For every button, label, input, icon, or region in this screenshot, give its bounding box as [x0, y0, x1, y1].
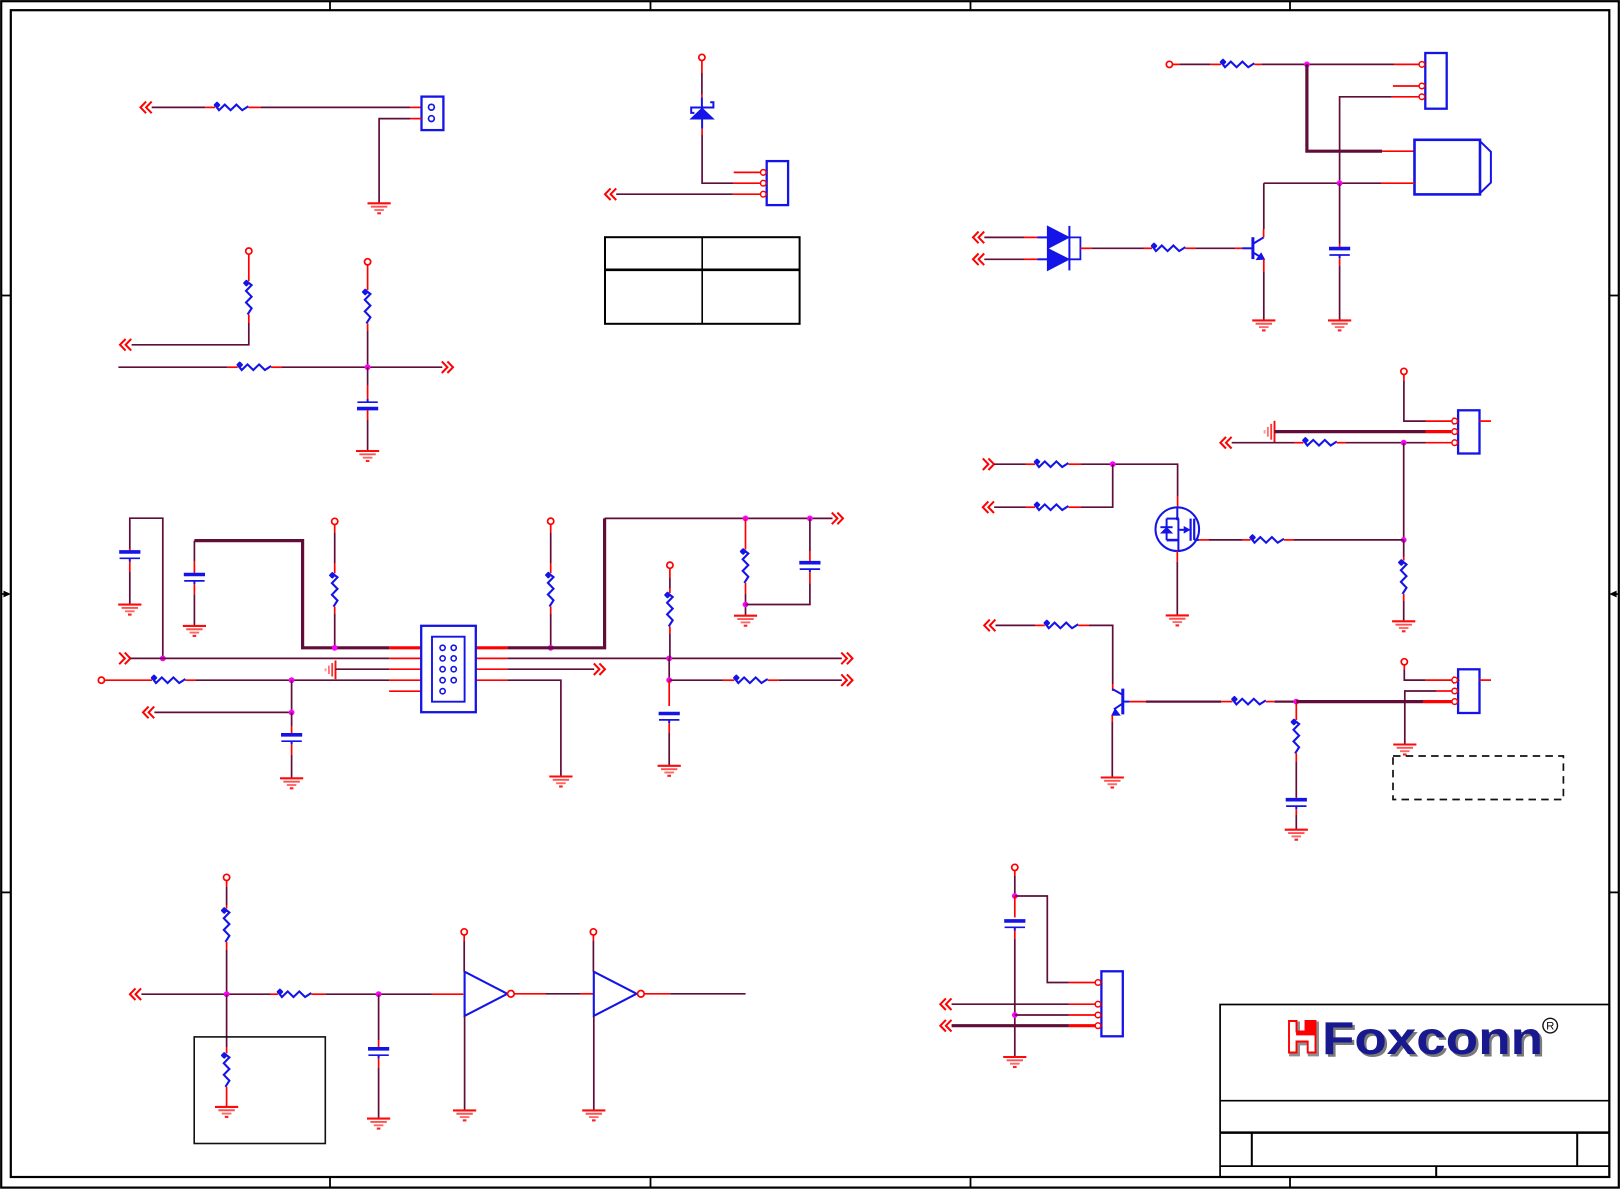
wire stub G4r: [1394, 63, 1419, 65]
ground C2: [183, 626, 206, 636]
power node I1: [1401, 659, 1407, 665]
wire stub C20r: [669, 626, 671, 634]
resistor R2: [243, 279, 252, 314]
wire stub D7r: [463, 935, 465, 941]
wire A2: [260, 106, 410, 108]
off-page connector arrow B-in: [120, 339, 131, 351]
wire stub E4r: [733, 182, 760, 184]
wire stub I13r: [1437, 690, 1452, 692]
wire D6: [464, 1016, 466, 1111]
capacitor C2: [119, 552, 140, 562]
capacitor C8: [1329, 249, 1350, 259]
ground D1: [453, 1110, 476, 1120]
wire D12: [378, 1068, 380, 1119]
wire stub C17r: [389, 657, 421, 659]
wire stub H13r: [1026, 506, 1036, 508]
wire B1: [132, 323, 249, 345]
pin marker J5-1: [1454, 677, 1459, 683]
resistor R12: [276, 988, 311, 997]
wire D10: [670, 993, 745, 995]
wire J1: [1014, 876, 1016, 896]
wire stub G6r: [1392, 96, 1419, 98]
wire C11 top rail: [605, 517, 833, 519]
wire stub C19rb: [669, 588, 671, 593]
wire stub G9r: [1339, 244, 1341, 248]
ground H1: [1392, 621, 1415, 631]
wire stub B8r: [367, 410, 369, 420]
wire stub C22r: [476, 668, 508, 670]
wire stub C3r thick: [389, 646, 421, 649]
junction H1: [1401, 440, 1407, 446]
wire C3 thick bus left: [194, 541, 389, 648]
wire G12: [1263, 183, 1265, 229]
wire stub D15r: [226, 1087, 228, 1107]
off-page connector arrow C-inD: [143, 707, 154, 719]
wire stub D10r: [592, 935, 594, 941]
wire D2: [226, 950, 228, 994]
wire stub D2r: [226, 905, 228, 909]
junction H2: [1401, 537, 1407, 543]
wire stub B4r: [271, 366, 282, 368]
ground C1: [118, 605, 141, 615]
wire C6: [334, 533, 336, 563]
wire I1: [1111, 722, 1113, 778]
wire G6: [1339, 183, 1341, 243]
Foxconn logo text: [1322, 1012, 1545, 1067]
off-page connector arrow C-outB: [841, 653, 852, 665]
off-page connector arrow C-outC: [594, 663, 605, 675]
wire J3: [1014, 939, 1016, 1057]
wire stub C1r: [129, 548, 131, 550]
connector J5: [1452, 669, 1480, 713]
wire H1: [1404, 381, 1426, 421]
wire H6: [1403, 540, 1405, 557]
wire stub I2r: [1130, 701, 1146, 703]
wire G9: [984, 258, 1024, 260]
frame left center arrow: [1, 591, 11, 598]
wire B5: [367, 367, 369, 385]
wire stub I4r: [1266, 701, 1275, 703]
power node D1: [224, 874, 230, 880]
wire H16: [1089, 625, 1113, 684]
wire stub H15r: [1199, 539, 1209, 541]
wire I6: [1295, 815, 1297, 830]
wire H10: [994, 506, 1025, 508]
off-page connector arrow G-in1: [973, 232, 984, 244]
wire stub E5r NC pin1: [734, 171, 761, 173]
wire stub I7r: [1295, 753, 1297, 762]
junction H3: [1110, 461, 1116, 467]
wire C13 cap drop: [809, 518, 811, 551]
resistor R16: [1302, 437, 1337, 446]
wire stub C11r: [550, 607, 552, 615]
wire stub H8r: [1403, 557, 1405, 561]
resistor R6: [545, 571, 554, 606]
off-page connector arrow C-out1: [832, 513, 843, 525]
junction G2: [1337, 180, 1343, 186]
wire C27: [779, 679, 842, 681]
wire D8: [592, 941, 594, 972]
wire stub H6r: [1337, 442, 1346, 444]
wire stub B7r: [367, 385, 369, 399]
ground I1: [1101, 778, 1124, 788]
wire D7: [546, 993, 580, 995]
connector J7 header: [421, 626, 476, 712]
wire I7: [1404, 669, 1425, 680]
off-page connector arrow H-in3: [984, 620, 995, 632]
svg-text:Foxconn: Foxconn: [1322, 1012, 1543, 1064]
wire stub E2r: [701, 94, 703, 97]
ground D4: [215, 1107, 238, 1117]
wire stub C7r: [334, 563, 336, 573]
wire stub G13r: [1080, 247, 1091, 249]
registered trademark symbol: [1543, 1018, 1558, 1033]
wire C19 rail C right: [508, 668, 595, 670]
wire stub H21r: [1112, 684, 1114, 691]
connector J2: [761, 161, 789, 205]
junction C6: [666, 656, 672, 662]
wire A3 J1-pin2 to ground: [379, 119, 410, 204]
off-page connector arrow J-in2: [940, 1020, 951, 1032]
junction C8: [289, 710, 295, 716]
wire stub B2r: [248, 315, 250, 324]
wire stub C6r: [334, 525, 336, 533]
wire I3: [1275, 700, 1297, 702]
resistor R7: [739, 548, 748, 583]
resistor R11: [221, 907, 230, 942]
connector J1: [422, 97, 444, 131]
wire stub C4r: [193, 561, 195, 573]
wire stub G18r: [1263, 259, 1265, 272]
wire stub I12r NC: [1480, 679, 1492, 681]
wire stub C28r: [291, 744, 293, 755]
junction J2: [1012, 1012, 1018, 1018]
wire A1: [152, 106, 206, 108]
wire stub G14r: [1144, 247, 1153, 249]
wire B2 rail: [118, 366, 227, 368]
wire stub C2r: [129, 562, 131, 573]
wire stub G15r: [1185, 247, 1196, 249]
wire G7: [1339, 266, 1341, 320]
junction D1: [224, 991, 230, 997]
power node B1: [246, 248, 252, 254]
dashed annotation box: [1393, 756, 1563, 800]
wire stub H11r: [1068, 463, 1081, 465]
wire C26: [669, 679, 723, 681]
wire stub H7r: [1426, 442, 1452, 444]
wire C28: [668, 733, 670, 766]
power node G1: [1166, 61, 1172, 67]
resistor R3: [236, 361, 271, 370]
wire stub H19r: [1035, 624, 1045, 626]
off-page connector arrow D-in: [130, 988, 141, 1000]
wire stub C32r: [668, 680, 670, 706]
wire C4 cap lead: [193, 541, 195, 561]
wire C2: [129, 572, 131, 605]
inverter U1B: [594, 972, 637, 1016]
wire E3: [616, 193, 733, 195]
wire stub G2r: [1210, 63, 1221, 65]
junction C1: [332, 645, 338, 651]
resistor R4: [362, 288, 371, 323]
wire stub C5r: [193, 584, 195, 594]
off-page connector arrow B-out: [442, 361, 453, 373]
power node H1: [1401, 368, 1407, 374]
wire stub I1r: [1111, 715, 1113, 722]
wire H8: [994, 463, 1026, 465]
wire stub E3r: [701, 129, 703, 135]
ground C3: [734, 616, 757, 626]
power node E1: [699, 54, 705, 60]
power node C3: [667, 562, 673, 568]
dual diode D2: [1038, 226, 1081, 271]
wire stub J1r: [1014, 871, 1016, 876]
off-page connector arrow C-inB: [119, 653, 130, 665]
wire stub J6r: [1069, 1014, 1095, 1016]
wire stub C12r thick: [476, 646, 508, 649]
resistor R23: [1290, 718, 1299, 753]
ground I2: [1285, 830, 1308, 840]
resistor R1: [213, 101, 248, 110]
inverter U1A: [465, 972, 508, 1016]
pin marker J4-1: [1453, 418, 1458, 424]
wire stub H2r: [1426, 420, 1452, 422]
wire stub J7r thick: [1069, 1024, 1095, 1027]
wire E2: [702, 135, 733, 183]
wire stub D11r: [644, 993, 670, 995]
wire C8: [550, 533, 552, 563]
junction I1: [1293, 699, 1299, 705]
wire stub D9r: [580, 993, 594, 995]
wire stub A3r: [410, 106, 421, 108]
wire stub I6r: [1295, 703, 1297, 720]
resistor R22: [1231, 696, 1266, 705]
wire stub C27r: [291, 726, 293, 734]
wire J5: [1015, 1014, 1069, 1016]
wire stub J2r: [1069, 982, 1095, 984]
wire G5: [1264, 182, 1381, 184]
wire C22: [154, 680, 291, 712]
wire stub D8r: [514, 993, 546, 995]
wire stub A4r: [410, 118, 421, 120]
wire stub B3r: [228, 366, 238, 368]
wire stub H16r: [1242, 539, 1251, 541]
off-page connector arrow G-in2: [973, 254, 984, 266]
title block: [1220, 1005, 1609, 1178]
wire C25: [668, 658, 670, 680]
wire C17b: [669, 578, 671, 588]
ground H2: [1166, 615, 1189, 625]
wire stub J3r: [1014, 896, 1016, 917]
wire C15 rail B left: [130, 657, 389, 659]
junction D2: [376, 991, 382, 997]
buzzer LS1: [1415, 140, 1491, 195]
power node D2: [461, 929, 467, 935]
wire stub C24r: [185, 679, 196, 681]
junction C4: [807, 516, 813, 522]
wire stub H5r: [1294, 442, 1303, 444]
wire stub D3r: [226, 942, 228, 950]
wire stub C13r: [745, 518, 747, 549]
wire stub B6r: [367, 323, 369, 331]
frame right center arrow: [1609, 591, 1619, 598]
wire stub H14r: [1068, 506, 1081, 508]
power node J1: [1012, 864, 1018, 870]
wire stub I3r: [1221, 701, 1232, 703]
wire D11: [378, 994, 380, 1040]
svg-text:R: R: [1546, 1021, 1554, 1033]
wire G4 thick: [1307, 64, 1382, 151]
wire I8: [1405, 691, 1437, 745]
junction G1: [1304, 62, 1310, 68]
wire stub D5r: [311, 993, 325, 995]
wire H2 thick: [1275, 430, 1426, 433]
wire stub G17r: [1263, 229, 1265, 237]
resistor R5: [329, 572, 338, 607]
wire I5: [1295, 762, 1297, 797]
wire stub J4r: [1014, 931, 1016, 940]
wire C24: [291, 755, 293, 778]
junction C5: [743, 602, 749, 608]
power node D3: [590, 929, 596, 935]
wire D4: [325, 993, 432, 995]
wire stub D14r: [226, 1047, 228, 1053]
off-page connector arrow H-in2: [983, 501, 994, 513]
off-page connector arrow E-in: [605, 188, 616, 200]
wire C10 thick bus right riser: [508, 518, 605, 647]
no-connect ground symbol H: [1265, 421, 1275, 443]
ground B: [356, 451, 379, 461]
wire stub D13r: [378, 1058, 380, 1068]
connector J6: [1095, 971, 1123, 1036]
capacitor C6: [659, 714, 680, 724]
wire C14: [746, 583, 810, 604]
wire C20 rail D left: [196, 679, 389, 681]
wire stub I9r: [1295, 809, 1297, 815]
wire stub I11r: [1425, 679, 1452, 681]
wire H15: [996, 624, 1036, 626]
wire stub A2r: [248, 106, 260, 108]
wire J6 thick: [952, 1024, 1069, 1027]
wire G2: [1262, 63, 1394, 65]
Foxconn logo H mark: [1289, 1021, 1317, 1055]
ground C6: [658, 766, 681, 776]
wire stub H3r NC: [1480, 420, 1492, 422]
wire stub D12r: [378, 1040, 380, 1048]
wire stub B1r: [248, 254, 250, 281]
wire stub D1r: [226, 881, 228, 887]
wire J4: [952, 1003, 1069, 1005]
wire G1: [1180, 63, 1210, 65]
wire stub G7r: [1382, 150, 1414, 152]
wire stub H1r: [1403, 375, 1405, 381]
off-page connector arrow H-out: [983, 458, 994, 470]
inverter U1A output bubble: [508, 991, 515, 998]
wire stub I8r: [1295, 797, 1297, 799]
junction J1: [1012, 893, 1018, 899]
wire stub C9r: [550, 524, 552, 533]
junction C0: [160, 656, 166, 662]
wire stub H18r: [1176, 551, 1178, 562]
ground I3: [1393, 745, 1416, 755]
wire stub C33r: [668, 723, 670, 733]
wire C5: [193, 594, 195, 626]
capacitor C4: [799, 563, 820, 573]
wire stub H9r: [1403, 594, 1405, 601]
resistor R10: [733, 674, 768, 683]
inverter U1B output bubble: [638, 991, 645, 998]
resistor R20: [1249, 534, 1284, 543]
wire G8: [984, 236, 1024, 238]
resistor R9: [150, 674, 185, 683]
ground C4: [549, 777, 572, 787]
off-page connector arrow H-in1: [1220, 437, 1231, 449]
off-page connector arrow J-in1: [940, 998, 951, 1010]
resistor R17: [1398, 559, 1407, 594]
mosfet Q2: [1156, 507, 1200, 551]
wire C23: [291, 712, 293, 726]
ground C5: [280, 778, 303, 788]
wire stub E6r: [733, 193, 761, 195]
wire C12: [745, 594, 747, 616]
wire C21 rail D right: [508, 680, 561, 776]
wire G11: [1196, 247, 1235, 249]
wire D1: [226, 887, 228, 905]
wire stub C16r: [809, 572, 811, 583]
wire stub C23r long: [105, 679, 152, 681]
resistor R14: [1219, 58, 1254, 67]
wire stub H12r: [1177, 496, 1179, 507]
wire H14: [1176, 562, 1178, 616]
wire H9: [1081, 464, 1178, 496]
wire stub H4r thick: [1426, 430, 1452, 433]
wire D5: [463, 941, 465, 972]
resistor R18: [1033, 458, 1068, 467]
wire stub D4r: [270, 993, 278, 995]
wire stub C30r: [723, 679, 734, 681]
wire stub H20r: [1078, 624, 1089, 626]
wire stub H17r: [1284, 539, 1294, 541]
ground G2: [1252, 320, 1275, 330]
junction C2: [548, 645, 554, 651]
wire stub C25r: [389, 679, 421, 681]
wire D9: [593, 1016, 595, 1111]
connector J3: [1419, 53, 1447, 109]
wire H13: [1294, 539, 1404, 541]
wire stub C26r: [476, 679, 508, 681]
wire stub D6r: [432, 993, 463, 995]
wire stub G11r: [1024, 236, 1038, 238]
wire stub G1r: [1173, 63, 1180, 65]
table box: [605, 237, 800, 324]
wire H4: [1346, 442, 1426, 444]
wire G10: [1092, 247, 1144, 249]
wire H7: [1403, 601, 1405, 621]
wire stub H10r: [1026, 463, 1036, 465]
resistor R21: [1043, 619, 1078, 628]
wire stub C14r: [745, 583, 747, 594]
no-connect ground symbol C: [326, 660, 336, 679]
wire stub E1r: [701, 61, 703, 73]
wire stub G16r: [1235, 247, 1242, 249]
junction B: [365, 364, 371, 370]
wire D13: [226, 994, 228, 1047]
wire H5: [1403, 443, 1405, 540]
annotation box: [194, 1037, 325, 1144]
wire stub G5r NC pin2: [1393, 85, 1419, 87]
wire stub I10r: [1403, 665, 1405, 669]
capacitor C9: [1286, 800, 1307, 810]
